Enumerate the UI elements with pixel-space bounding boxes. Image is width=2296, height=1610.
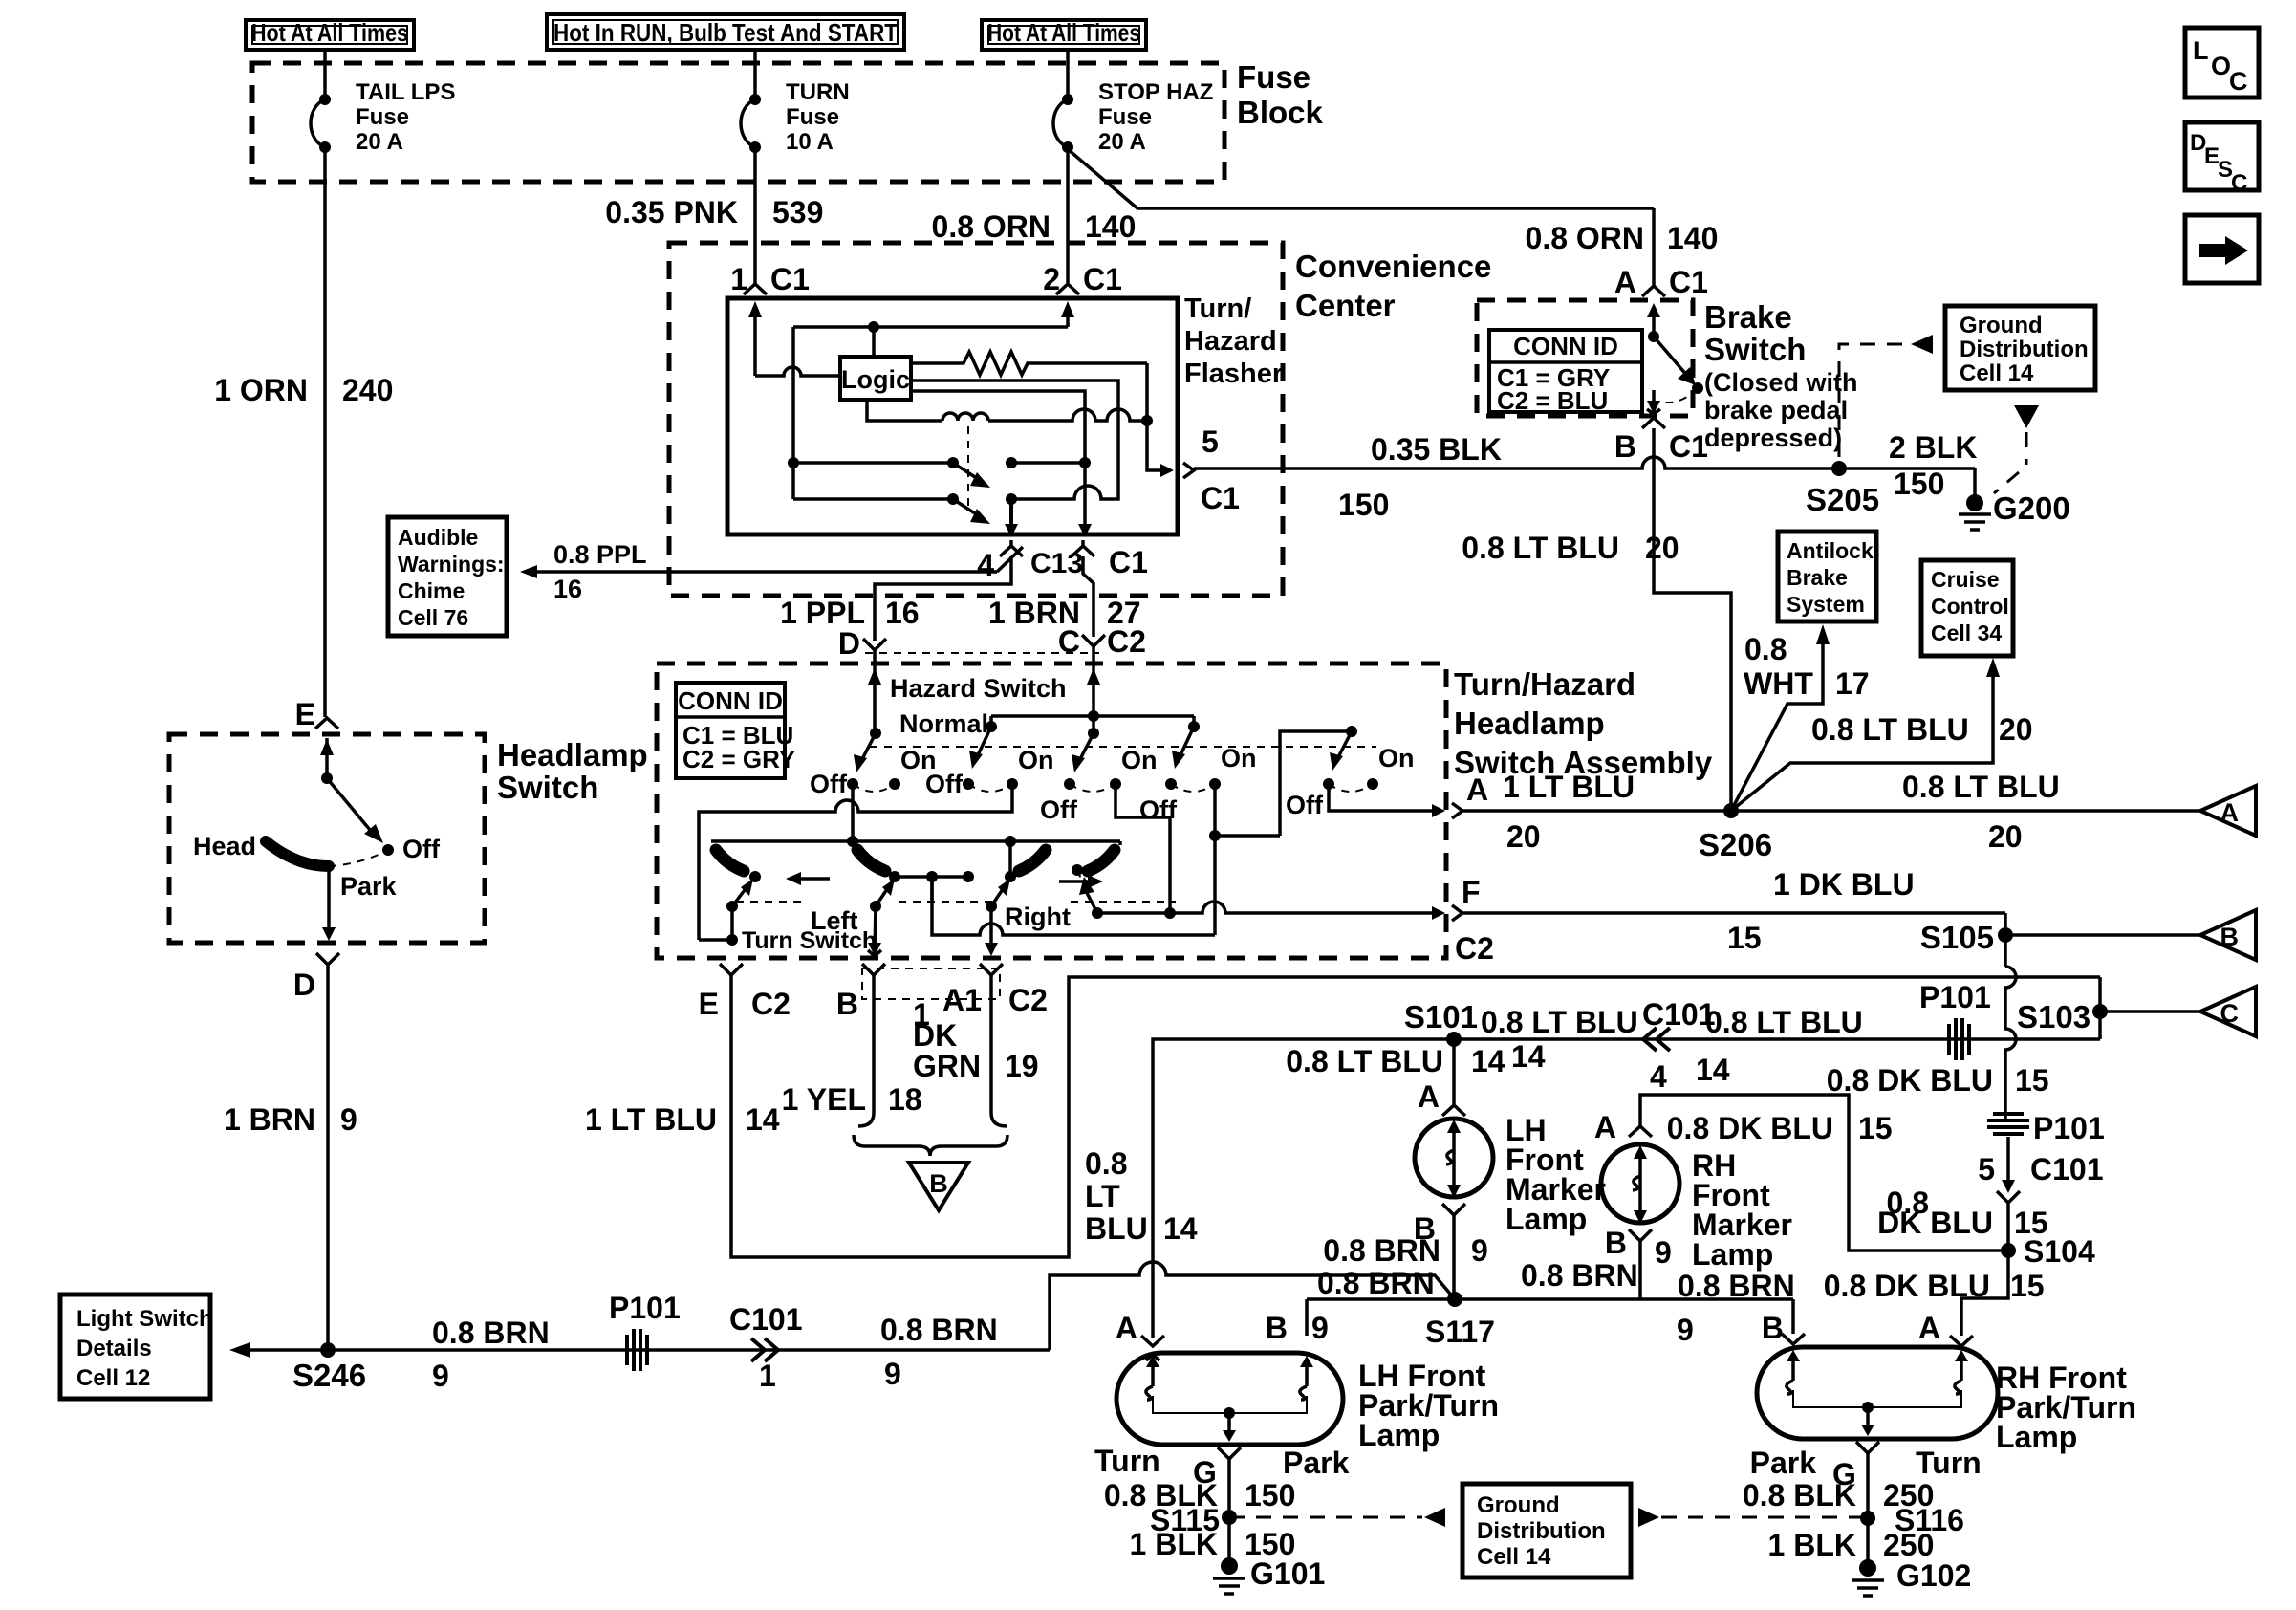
svg-text:C1: C1 (1201, 481, 1240, 515)
svg-text:15: 15 (1727, 921, 1762, 955)
svg-text:Hot At All Times: Hot At All Times (987, 18, 1140, 47)
node inductor-resistor junction (1141, 415, 1153, 426)
svg-text:Lamp: Lamp (1358, 1418, 1440, 1452)
triangle ref A (2200, 786, 2256, 836)
svg-text:1 BLK: 1 BLK (1130, 1527, 1218, 1561)
wire pin1 to logic (755, 367, 840, 376)
svg-text:9: 9 (432, 1359, 449, 1393)
svg-text:Turn/: Turn/ (1184, 294, 1251, 324)
svg-text:Light Switch: Light Switch (76, 1306, 213, 1332)
svg-text:1 YEL: 1 YEL (782, 1082, 866, 1117)
wire 1 BRN 9 (headlamp D to S246) (326, 965, 330, 1350)
wire 0.8 DK BLU 15 vertical (S105 to S104) (2005, 967, 2016, 1119)
turn pole 4 (F) (1088, 850, 1115, 871)
svg-text:20: 20 (1999, 712, 2033, 747)
svg-text:B: B (836, 987, 858, 1021)
svg-text:9: 9 (1677, 1313, 1694, 1347)
svg-text:System: System (1787, 592, 1865, 617)
direction arrow right (1059, 880, 1092, 883)
wire top horizontal to pin2 (793, 325, 1068, 329)
svg-text:Fuse: Fuse (1098, 104, 1152, 130)
svg-text:0.8 PPL: 0.8 PPL (553, 540, 647, 569)
svg-text:Brake: Brake (1704, 299, 1792, 335)
ground G101 (1221, 1557, 1238, 1575)
CONN ID box (assembly) (676, 683, 785, 778)
svg-text:14: 14 (1511, 1039, 1546, 1074)
svg-text:20: 20 (1988, 819, 2023, 854)
svg-text:S101: S101 (1404, 999, 1478, 1034)
svg-text:0.8 BRN: 0.8 BRN (880, 1313, 998, 1347)
svg-text:C2: C2 (1107, 624, 1146, 659)
wire D into assembly (873, 650, 877, 733)
wire 1 PPL 16 pin4 to D (875, 556, 1011, 641)
svg-text:Off: Off (402, 835, 441, 863)
wire C into assembly (1092, 646, 1095, 716)
wire hazard On3 to F wire (1116, 784, 1170, 913)
dashed reference S205 to ground distribution (1839, 344, 1908, 457)
connector P101 (lt blu wire) (1947, 1024, 1951, 1055)
svg-text:Park: Park (1283, 1446, 1350, 1480)
hazard pole 5 (1346, 726, 1357, 737)
svg-text:P101: P101 (1919, 980, 1991, 1014)
svg-text:BLU: BLU (1085, 1211, 1148, 1246)
svg-text:A: A (1116, 1311, 1137, 1345)
svg-text:C: C (1058, 624, 1080, 659)
wire 0.8 LT BLU 20 to cruise (1731, 675, 1993, 811)
svg-text:14: 14 (746, 1102, 780, 1137)
brake switch dashed box (1477, 300, 1693, 416)
node S115 (1222, 1510, 1237, 1525)
svg-text:C2 = BLU: C2 = BLU (1497, 386, 1608, 415)
svg-text:G101: G101 (1250, 1556, 1325, 1591)
connector pin A C1 (brake switch) (1642, 286, 1665, 296)
wire lower run to turn contacts (932, 877, 1215, 935)
connector P101 (dk blu wire) (1993, 1112, 2024, 1116)
terminal E caret and labels (720, 964, 743, 975)
terminal B caret (862, 964, 885, 975)
svg-text:Distribution: Distribution (1960, 337, 2089, 362)
connector pin A caret (1442, 1105, 1465, 1116)
label box Hot At All Times (right) (982, 20, 1146, 50)
svg-text:0.35 BLK: 0.35 BLK (1371, 432, 1502, 467)
svg-text:Off: Off (810, 770, 848, 798)
turn switch bus (711, 839, 1120, 843)
fuse F TAIL LPS 20A (319, 94, 331, 105)
turn/hazard flasher U1 box (727, 298, 1178, 534)
svg-text:On: On (1018, 746, 1054, 774)
svg-text:9: 9 (884, 1357, 901, 1391)
svg-text:Switch: Switch (497, 770, 598, 805)
svg-text:L: L (2193, 36, 2209, 65)
node S205 (1831, 461, 1847, 476)
svg-text:20 A: 20 A (356, 129, 403, 155)
svg-text:C: C (2231, 170, 2247, 196)
connector pin E caret (315, 718, 338, 729)
node S206 (1723, 803, 1739, 818)
wire A1 vertical from contact (930, 877, 934, 903)
wire to triangle B (2005, 933, 2200, 937)
svg-text:A: A (1614, 265, 1636, 299)
svg-text:Distribution: Distribution (1477, 1518, 1606, 1544)
svg-text:Lamp: Lamp (1505, 1202, 1587, 1236)
connector C101 pin 5 (2006, 1137, 2010, 1182)
hazard pole 4 (1188, 721, 1200, 732)
svg-text:14: 14 (1696, 1053, 1730, 1087)
svg-text:0.8 DK BLU: 0.8 DK BLU (1827, 1063, 1993, 1098)
connector pin G caret (1218, 1447, 1241, 1459)
svg-text:(Closed with: (Closed with (1704, 368, 1858, 397)
svg-text:B: B (1614, 429, 1636, 464)
svg-text:C1: C1 (1109, 545, 1148, 579)
svg-text:9: 9 (1471, 1233, 1488, 1268)
dashed actuator link (flasher switch) (967, 426, 969, 507)
svg-text:Turn Switch: Turn Switch (742, 927, 877, 954)
svg-text:20: 20 (1506, 819, 1541, 854)
svg-text:1 DK BLU: 1 DK BLU (1773, 867, 1915, 902)
assembly dashed box (657, 664, 1446, 958)
svg-text:Off: Off (1040, 795, 1078, 824)
svg-text:C1: C1 (770, 262, 810, 296)
svg-text:10 A: 10 A (786, 129, 834, 155)
wire pole5 feed (1280, 731, 1352, 836)
turn pole 3 (right common) (1008, 841, 1012, 877)
svg-text:2: 2 (1043, 262, 1060, 296)
svg-text:C1: C1 (1669, 429, 1708, 464)
svg-text:Headlamp: Headlamp (497, 737, 648, 772)
svg-text:Logic: Logic (841, 365, 910, 394)
wire 0.8 PPL 16 to audible warnings (537, 570, 997, 574)
wire hazard Off5 to A (1329, 784, 1432, 811)
direction arrow left (797, 877, 830, 881)
svg-text:GRN: GRN (913, 1049, 981, 1083)
svg-text:Chime: Chime (398, 578, 465, 603)
svg-text:On: On (1221, 744, 1257, 772)
svg-text:Ground: Ground (1477, 1492, 1560, 1518)
connector pin B caret (1629, 1229, 1652, 1241)
reference box Light Switch Details Cell 12 (60, 1295, 210, 1399)
svg-text:B: B (1762, 1311, 1784, 1345)
wire LH park/turn B (1305, 1299, 1309, 1336)
reference box Cruise Control Cell 34 (1921, 560, 2013, 656)
mechanical dashed link (hazard) (870, 746, 1376, 748)
svg-text:Fuse: Fuse (1237, 59, 1310, 95)
svg-text:Cruise: Cruise (1931, 567, 2000, 592)
terminal A1 caret (980, 964, 1003, 975)
node S101 (1446, 1032, 1462, 1047)
svg-text:Control: Control (1931, 594, 2009, 619)
svg-text:Warnings:: Warnings: (398, 552, 505, 577)
terminal D caret (863, 639, 886, 650)
node S117 (1447, 1292, 1462, 1307)
svg-text:0.8 LT BLU: 0.8 LT BLU (1286, 1044, 1443, 1078)
svg-text:Hot At All Times: Hot At All Times (251, 18, 408, 47)
svg-text:150: 150 (1245, 1478, 1295, 1512)
resistor R (flasher internal) (911, 352, 1147, 375)
svg-text:5: 5 (1202, 424, 1219, 459)
node S105 (2004, 913, 2007, 967)
node S103 (2092, 1004, 2108, 1019)
svg-text:LT: LT (1085, 1179, 1120, 1213)
connector pin 4 C13 below flasher (1000, 546, 1023, 556)
wire logic to right vertical (mid) (911, 381, 1118, 499)
hazard pole 3 (1088, 728, 1099, 739)
connector pin A caret (1950, 1336, 1973, 1346)
brace under YEL/GRN wires (854, 1135, 1007, 1156)
svg-text:0.8 ORN: 0.8 ORN (1526, 221, 1644, 255)
svg-text:Head: Head (193, 832, 256, 860)
svg-text:D: D (293, 968, 315, 1002)
svg-text:Lamp: Lamp (1692, 1237, 1773, 1272)
lamp RH front marker (1601, 1144, 1679, 1223)
svg-text:B: B (1605, 1226, 1627, 1260)
dashed reference S115 to ground dist (1229, 1516, 1422, 1519)
connector face dashed line (865, 652, 1099, 654)
svg-text:1 LT BLU: 1 LT BLU (585, 1102, 717, 1137)
svg-text:S246: S246 (292, 1358, 366, 1393)
reference box Ground Distribution Cell 14 (top) (1945, 306, 2095, 390)
svg-text:Turn: Turn (1094, 1444, 1160, 1478)
svg-text:0.8 LT BLU: 0.8 LT BLU (1481, 1005, 1638, 1039)
svg-text:S103: S103 (2017, 999, 2090, 1034)
svg-text:C2: C2 (1455, 931, 1494, 966)
svg-text:On: On (1378, 744, 1415, 772)
svg-text:S104: S104 (2024, 1234, 2095, 1269)
connector pin A caret (1629, 1126, 1652, 1137)
svg-text:E: E (295, 697, 315, 731)
svg-text:A: A (2220, 798, 2240, 827)
svg-text:0.8 LT BLU: 0.8 LT BLU (1462, 531, 1619, 565)
wire to triangle C (2100, 1010, 2200, 1013)
svg-text:depressed): depressed) (1704, 424, 1842, 452)
svg-text:9: 9 (340, 1102, 357, 1137)
wire 1 ORN 240 (TAIL LPS fuse down to headlamp switch E) (323, 147, 327, 717)
svg-text:Cell 14: Cell 14 (1477, 1544, 1551, 1570)
svg-text:0.35 PNK: 0.35 PNK (605, 195, 738, 229)
svg-text:F: F (1462, 875, 1481, 909)
svg-text:250: 250 (1883, 1528, 1934, 1562)
svg-text:5: 5 (1978, 1152, 1995, 1186)
svg-text:C: C (2220, 999, 2240, 1028)
logic box (840, 357, 911, 400)
flasher switch lower contacts (791, 327, 795, 499)
svg-text:DK BLU: DK BLU (1877, 1206, 1993, 1240)
svg-text:Headlamp: Headlamp (1454, 706, 1605, 741)
connector dashed outline (C2 pins B-A1) (862, 968, 1000, 999)
lamp LH front marker (1415, 1119, 1493, 1197)
svg-text:TURN: TURN (786, 79, 850, 105)
svg-text:STOP HAZ: STOP HAZ (1098, 79, 1213, 105)
wire 0.8 LT BLU 14 (park/turn A to S103) (1153, 1039, 2100, 1338)
flasher pin1 internal arrow (753, 315, 757, 376)
connector pin D caret (316, 953, 339, 965)
brake switch SW internal (1647, 303, 1660, 317)
connector C101 chevrons (brn wire) (751, 1338, 765, 1361)
svg-text:Turn: Turn (1916, 1446, 1982, 1480)
svg-text:C2 = GRY: C2 = GRY (682, 745, 795, 773)
wire 0.8 ORN 140 (STOP HAZ fuse down to flasher pin 2) (1066, 147, 1070, 283)
svg-text:Switch: Switch (1704, 332, 1806, 367)
svg-text:0.8: 0.8 (1744, 632, 1787, 666)
svg-text:0.8 LT BLU: 0.8 LT BLU (1705, 1005, 1863, 1039)
svg-text:0.8 BRN: 0.8 BRN (1323, 1233, 1440, 1268)
connector P101 (brn wire) (625, 1335, 629, 1365)
hazard normal bus (991, 714, 1194, 718)
reference box Audible Warnings Chime Cell 76 (388, 517, 507, 636)
wire 0.8 BLK 250 to S116 (1866, 1453, 1870, 1568)
svg-text:P101: P101 (609, 1291, 681, 1325)
wire B output (875, 906, 876, 952)
svg-text:0.8 LT BLU: 0.8 LT BLU (1902, 770, 2060, 804)
turn pole 2 (B) (857, 850, 885, 871)
dashed arrow from box to G200 (2014, 405, 2039, 428)
svg-text:140: 140 (1667, 221, 1718, 255)
connector pin B caret (1442, 1204, 1465, 1215)
wire 1 DK GRN 19 (991, 975, 1007, 1126)
turn pole 1 (E) (716, 850, 744, 871)
svg-text:17: 17 (1835, 666, 1870, 701)
ground G200 (1966, 494, 1983, 511)
svg-text:C2: C2 (1008, 983, 1048, 1017)
svg-text:Cell 12: Cell 12 (76, 1365, 150, 1391)
dashed reference to S116 (1638, 1508, 1659, 1527)
svg-text:E: E (699, 987, 719, 1021)
wire 0.8 WHT 17 to antilock (1731, 642, 1823, 811)
svg-text:Right: Right (1005, 903, 1071, 931)
wire 1 YEL 18 (858, 975, 874, 1126)
wire 1 DK BLU 15 (F row) (1462, 911, 2005, 915)
svg-text:S117: S117 (1425, 1315, 1495, 1349)
wire pole4 On to lower run (1213, 784, 1217, 935)
wire from Hot box to TAIL LPS fuse (323, 50, 327, 99)
svg-text:0.8 BRN: 0.8 BRN (432, 1316, 550, 1350)
connector pin B C1 (brake switch) (1642, 418, 1665, 428)
hazard pole 1 (870, 728, 881, 739)
wire 0.8 LT BLU 14 (S101 down) (1452, 1039, 1456, 1104)
svg-text:15: 15 (1858, 1111, 1893, 1145)
svg-text:A: A (1918, 1311, 1940, 1345)
svg-text:9: 9 (1311, 1311, 1329, 1345)
svg-text:1: 1 (759, 1359, 776, 1393)
svg-text:Park: Park (1750, 1446, 1817, 1480)
reference box LOC (2185, 28, 2259, 98)
fuse F STOP HAZ 20A (1062, 94, 1073, 105)
svg-text:Hazard: Hazard (1184, 326, 1277, 357)
svg-text:19: 19 (1005, 1049, 1039, 1083)
svg-text:S206: S206 (1699, 827, 1772, 862)
svg-text:539: 539 (772, 195, 823, 229)
svg-text:Details: Details (76, 1336, 152, 1361)
svg-text:Cell 76: Cell 76 (398, 605, 468, 630)
svg-text:C1: C1 (1083, 262, 1122, 296)
node logic-top junction (868, 321, 879, 333)
svg-text:C: C (2229, 67, 2248, 96)
svg-text:20 A: 20 A (1098, 129, 1146, 155)
svg-text:On: On (1121, 746, 1158, 774)
svg-text:16: 16 (885, 596, 920, 630)
svg-text:Fuse: Fuse (786, 104, 839, 130)
svg-text:CONN ID: CONN ID (1513, 332, 1618, 360)
wire RH park/turn B (1791, 1299, 1795, 1334)
wire S104 to RH park/turn A (1961, 1251, 2008, 1336)
svg-text:Fuse: Fuse (356, 104, 409, 130)
svg-text:G200: G200 (1993, 490, 2070, 526)
node S246 (320, 1342, 336, 1358)
headlamp switch dashed box (169, 734, 485, 943)
svg-text:S105: S105 (1920, 920, 1994, 955)
wire 0.8 BRN 9 (S246 row) (250, 1348, 1050, 1352)
svg-text:0.8 BLK: 0.8 BLK (1743, 1478, 1856, 1512)
wire S103 right edge (2098, 977, 2102, 1039)
connector pin 2 C1 (1056, 284, 1079, 294)
svg-text:20: 20 (1645, 531, 1679, 565)
svg-text:G102: G102 (1896, 1558, 1971, 1593)
svg-text:1 ORN: 1 ORN (214, 373, 308, 407)
svg-text:150: 150 (1338, 488, 1389, 522)
wire 0.35 PNK 539 (TURN fuse down to flasher pin 1) (753, 147, 757, 283)
svg-text:1 BRN: 1 BRN (224, 1102, 315, 1137)
svg-text:TAIL LPS: TAIL LPS (356, 79, 455, 105)
svg-text:0.8: 0.8 (1085, 1146, 1127, 1181)
wire F output (1097, 902, 1432, 913)
svg-text:C101: C101 (729, 1302, 803, 1337)
svg-text:1 BLK: 1 BLK (1768, 1528, 1856, 1562)
svg-text:C1: C1 (1669, 265, 1708, 299)
flasher switch upper contacts (793, 461, 953, 465)
wire 0.8 BRN 9 (S117 east to RH lamps) (1307, 1297, 1793, 1301)
svg-text:Hazard Switch: Hazard Switch (890, 674, 1067, 703)
terminal F caret (assembly) (1452, 905, 1462, 921)
svg-text:Ground: Ground (1960, 313, 2043, 338)
terminal A caret (assembly) (1452, 803, 1462, 818)
svg-text:Park: Park (340, 872, 398, 901)
wire pin4 internal (1009, 499, 1013, 526)
wire 0.8 BRN 9 (marker B to S117) (1452, 1215, 1456, 1299)
terminal C caret (1082, 635, 1105, 646)
wire logic to contact vertical (911, 391, 1085, 526)
inductor L (flasher internal) (867, 400, 942, 421)
svg-text:Off: Off (925, 770, 964, 798)
svg-text:Audible: Audible (398, 525, 478, 550)
reference box Antilock Brake System (1778, 532, 1876, 621)
wire A1 output (989, 906, 993, 952)
svg-text:B: B (2220, 923, 2240, 951)
svg-text:Cell 14: Cell 14 (1960, 360, 2034, 386)
svg-text:Off: Off (1139, 795, 1178, 824)
triangle ref B (down) (909, 1163, 968, 1210)
svg-text:4: 4 (977, 548, 994, 582)
wire 0.8 BLK 150 to S115 (1227, 1459, 1231, 1566)
svg-text:9: 9 (1655, 1235, 1672, 1270)
svg-text:C2: C2 (751, 987, 791, 1021)
fuse F TURN 10A (749, 94, 761, 105)
wire 1 BRN 27 pin C1 to C (1083, 556, 1094, 637)
wire 2 BLK 150 to G200 (1973, 468, 1977, 496)
CONN ID box (brake) (1489, 330, 1642, 412)
svg-text:1: 1 (730, 262, 747, 296)
wire 1 LT BLU 14 (E to park feed) (731, 975, 2100, 1257)
svg-text:15: 15 (2015, 1063, 2049, 1098)
svg-text:O: O (2211, 52, 2231, 80)
svg-text:B: B (929, 1169, 948, 1198)
svg-text:240: 240 (342, 373, 393, 407)
reference box arrow (2185, 215, 2259, 283)
wire from Hot box to STOP HAZ fuse (1066, 50, 1070, 99)
svg-text:A: A (1466, 772, 1488, 807)
wire 0.8 BRN to S117 (1050, 1262, 1455, 1350)
svg-text:14: 14 (1471, 1044, 1505, 1078)
svg-text:Turn/Hazard: Turn/Hazard (1454, 666, 1635, 702)
connector C101 chevrons (lt blu) (1643, 1028, 1657, 1051)
